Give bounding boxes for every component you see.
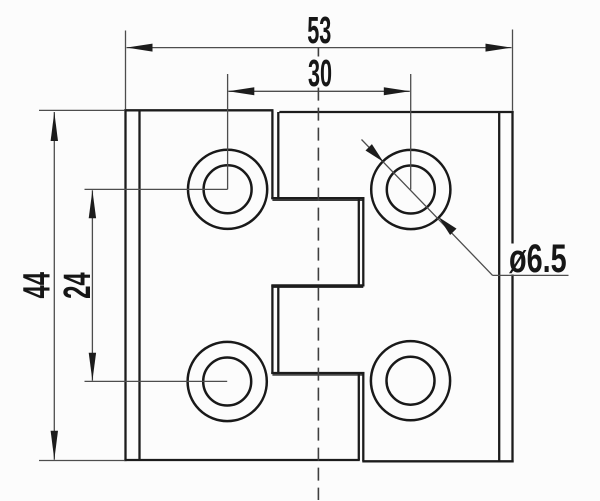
right knuckle gap edge bottom right	[362, 372, 364, 461]
left knuckle gap edge lower right	[277, 285, 279, 374]
left leaf inner bend line	[138, 110, 140, 460]
hole bottom-right outer circle	[371, 341, 450, 420]
arrow dim53 left	[127, 44, 153, 52]
arrowheads	[51, 44, 512, 460]
knuckle step edge 1	[271, 197, 364, 199]
hole bottom-left outer circle	[188, 342, 267, 421]
knuckle step edge 3	[271, 372, 364, 374]
right knuckle gap edge mid right	[362, 197, 364, 286]
dim text 30 background mask	[304, 57, 337, 88]
svg-text:ø6.5: ø6.5	[509, 236, 567, 281]
arrow dim24 bottom	[89, 353, 96, 381]
arrow leader upper (points to circle, inward)	[366, 144, 384, 162]
dim 53 line	[127, 47, 512, 49]
knuckle step edge 1b	[272, 199, 363, 201]
svg-text:53: 53	[307, 9, 331, 52]
right knuckle gap edge bottom left	[358, 372, 360, 460]
dim 44 line	[53, 112, 55, 460]
right leaf bottom edge	[362, 460, 513, 462]
knuckle step edge 3b	[272, 374, 363, 376]
hole bottom-right inner circle	[387, 357, 435, 405]
arrow leader lower (points to circle, inward)	[439, 217, 457, 235]
svg-text:44: 44	[15, 272, 58, 299]
left leaf bottom edge	[124, 459, 359, 461]
screw holes	[188, 150, 451, 421]
dimension and extension lines	[39, 30, 569, 461]
dim 30 line	[228, 90, 409, 92]
hole bottom-left inner circle	[203, 358, 251, 406]
knuckle step edge 2b	[272, 286, 363, 288]
knuckle step edge 2	[271, 284, 364, 286]
dim 24 top extension to hole center	[85, 188, 228, 190]
dim 30 left extension to hole center	[227, 74, 229, 189]
arrow dim53 right	[486, 44, 512, 52]
right leaf top edge	[279, 111, 513, 113]
right leaf inner bend line	[498, 112, 500, 461]
leader diagonal through hole	[362, 140, 493, 276]
arrow dim30 right	[384, 87, 410, 95]
arrow dim30 left	[228, 87, 254, 95]
dim 24 line	[91, 190, 93, 381]
hole top-left outer circle	[188, 150, 267, 229]
right knuckle gap edge mid left	[358, 197, 360, 286]
centerline (dashed)	[317, 48, 319, 500]
arrow dim44 bottom	[51, 431, 58, 460]
hole top-left inner circle	[204, 165, 252, 213]
dim 24 bottom extension to hole center	[85, 380, 228, 382]
arrow dim24 top	[89, 190, 96, 218]
hole top-right inner circle	[387, 166, 435, 214]
dim 44 bottom extension	[39, 460, 125, 462]
left knuckle gap edge lower left	[271, 285, 273, 374]
left leaf outer edge	[124, 109, 126, 461]
left knuckle gap edge upper right	[277, 112, 279, 199]
arrow dim44 top	[51, 112, 58, 141]
dim 30 right extension to hole center	[410, 74, 412, 190]
left knuckle gap edge upper left	[271, 110, 273, 199]
svg-text:24: 24	[55, 272, 98, 299]
dim 44 top extension	[39, 109, 125, 111]
leader shelf under text	[493, 274, 569, 276]
hole top-right outer circle	[371, 150, 450, 229]
dim 53 right extension	[512, 30, 514, 111]
svg-text:30: 30	[308, 51, 332, 94]
left leaf top edge	[124, 109, 273, 111]
right leaf outer edge	[511, 111, 513, 463]
part outline: hinge leaves	[124, 109, 513, 462]
diameter text background	[507, 244, 571, 275]
dim 53 left extension	[125, 31, 127, 110]
